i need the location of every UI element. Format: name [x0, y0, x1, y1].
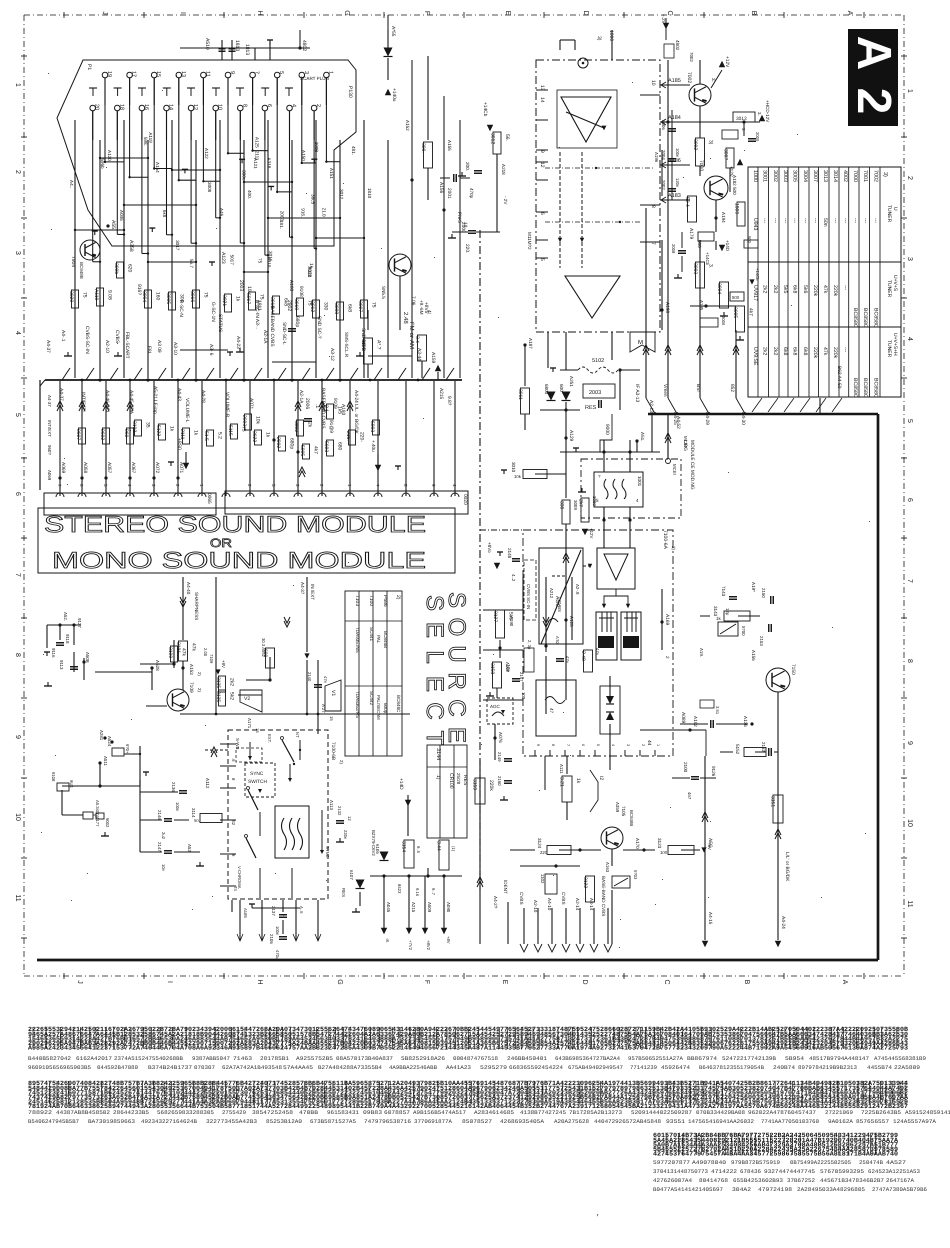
svg-text:A*55: A*55	[390, 26, 396, 37]
svg-text:2150: 2150	[761, 588, 766, 598]
svg-text:0065: 0065	[206, 493, 212, 504]
svg-text:2100: 2100	[683, 762, 688, 773]
svg-text:P130: P130	[347, 86, 353, 98]
svg-text:2153: 2153	[759, 636, 764, 646]
svg-text:A50B: A50B	[85, 652, 90, 663]
svg-text:---: ---	[802, 218, 808, 223]
svg-text:2006: 2006	[304, 398, 310, 409]
svg-text:BA73019859663: BA73019859663	[88, 1118, 135, 1125]
svg-text:600p: 600p	[383, 703, 388, 714]
svg-text:2111: 2111	[254, 151, 259, 161]
svg-text:3: 3	[303, 71, 309, 74]
svg-text:12: 12	[539, 162, 545, 168]
svg-text:+.40u: +.40u	[371, 440, 376, 452]
svg-text:A511: A511	[103, 756, 108, 766]
svg-text:960-: 960-	[123, 429, 129, 439]
svg-text:A170: A170	[635, 838, 640, 849]
svg-text:0004874767518: 0004874767518	[453, 1055, 498, 1062]
svg-text:3122: 3122	[582, 877, 588, 888]
svg-text:A196: A196	[654, 152, 659, 163]
svg-text:---: ---	[762, 218, 768, 223]
svg-text:2): 2)	[339, 760, 344, 764]
svg-text:20: 20	[94, 104, 100, 110]
svg-text:7479796538716: 7479796538716	[364, 1118, 411, 1125]
svg-text:F: F	[423, 980, 430, 984]
svg-text:85253B12A0: 85253B12A0	[266, 1118, 303, 1125]
svg-text:2: 2	[315, 104, 321, 107]
svg-text:220k: 220k	[832, 347, 838, 359]
svg-text:SYNC: SYNC	[250, 771, 264, 777]
svg-text:SHARPNESS: SHARPNESS	[194, 592, 199, 620]
svg-text:2005: 2005	[755, 132, 760, 142]
svg-text:09B83: 09B83	[363, 1109, 382, 1116]
svg-text:(1): (1)	[451, 846, 456, 852]
svg-text:9?0+: 9?0+	[125, 744, 130, 754]
svg-text:2): 2)	[197, 672, 202, 676]
svg-text:85078527: 85078527	[462, 1118, 492, 1125]
svg-text:50 4: 50 4	[684, 197, 690, 207]
svg-text:A3-14: A3-14	[589, 898, 594, 911]
svg-text:1813: 1813	[234, 40, 240, 51]
svg-text:B-SC-IN A3-..: B-SC-IN A3-..	[254, 300, 260, 329]
svg-text:9.08: 9.08	[107, 290, 113, 300]
svg-text:3016: 3016	[189, 291, 195, 302]
svg-text:A182 500: A182 500	[732, 175, 737, 195]
svg-text:A119: A119	[93, 289, 99, 301]
svg-text:9108: 9108	[298, 286, 304, 297]
svg-text:A4-15: A4-15	[708, 912, 713, 925]
svg-text:BB867974: BB867974	[687, 1055, 718, 1062]
svg-text:1000: 1000	[608, 30, 614, 41]
svg-text:B5406247945B5B7: B5406247945B5B7	[28, 1118, 79, 1125]
svg-text:08A570173B40A837: 08A570173B40A837	[336, 1055, 393, 1062]
svg-text:2902: 2902	[286, 300, 292, 311]
svg-text:100n: 100n	[175, 802, 180, 812]
svg-text:680: 680	[337, 442, 343, 451]
svg-text:2u2: 2u2	[161, 832, 166, 840]
svg-text:47n: 47n	[323, 676, 328, 684]
svg-text:44387AB8B458502: 44387AB8B458502	[56, 1109, 110, 1116]
svg-text:4n7: 4n7	[687, 792, 692, 800]
svg-text:U+V+S+H: U+V+S+H	[892, 333, 898, 356]
svg-text:+12V: +12V	[724, 56, 730, 68]
svg-text:600: 600	[559, 384, 564, 392]
svg-text:2.48: 2.48	[402, 312, 409, 324]
svg-text:957B50652551A27A: 957B50652551A27A	[628, 1055, 684, 1062]
svg-text:UV917: UV917	[752, 285, 758, 301]
svg-text:STEREO SOUND MODULE: STEREO SOUND MODULE	[44, 511, 426, 537]
svg-text:A4..: A4..	[69, 180, 74, 188]
svg-text:2003: 2003	[279, 211, 284, 222]
svg-text:A3-10: A3-10	[172, 342, 178, 355]
svg-text:2: 2	[847, 88, 900, 115]
svg-text:2): 2)	[671, 546, 676, 551]
svg-text:5603: 5603	[323, 441, 329, 452]
svg-text:A2-13: A2-13	[648, 400, 654, 413]
svg-text:A215: A215	[438, 388, 444, 400]
svg-text:35.: 35.	[145, 422, 151, 429]
svg-text:A4-23: A4-23	[235, 336, 241, 349]
svg-text:3004: 3004	[802, 170, 808, 182]
svg-text:47k: 47k	[181, 648, 187, 657]
svg-text:A185: A185	[668, 78, 681, 84]
svg-text:A510: A510	[204, 38, 210, 50]
svg-text:A338: A338	[307, 267, 312, 278]
svg-text:10: 10	[217, 104, 223, 110]
svg-text:5295279: 5295279	[480, 1064, 507, 1071]
svg-text:6k8: 6k8	[802, 347, 808, 355]
svg-text:A076: A076	[498, 732, 503, 743]
svg-text:7150: 7150	[790, 664, 796, 675]
svg-text:A180: A180	[340, 404, 346, 416]
svg-text:A20A275628: A20A275628	[554, 1118, 589, 1125]
svg-text:7741AA77050103760: 7741AA77050103760	[761, 1118, 820, 1125]
svg-text:L/BG: L/BG	[682, 440, 688, 451]
svg-text:3005: 3005	[732, 307, 738, 318]
svg-text:5.2: 5.2	[217, 432, 223, 439]
svg-text:---: ---	[772, 218, 778, 223]
svg-text:9116: 9116	[51, 648, 56, 658]
svg-text:2003: 2003	[589, 390, 601, 396]
svg-text:3012: 3012	[490, 133, 496, 144]
svg-text:7109: 7109	[209, 654, 214, 664]
svg-text:B440B5827042: B440B5827042	[28, 1055, 71, 1062]
svg-text:4802: 4802	[301, 40, 307, 51]
svg-text:220-: 220-	[359, 432, 365, 442]
svg-text:A156: A156	[438, 182, 444, 194]
svg-text:U: U	[892, 207, 898, 211]
svg-text:A281: A281	[99, 730, 104, 741]
svg-text:9: 9	[539, 150, 545, 153]
svg-text:A4-10: A4-10	[547, 898, 552, 911]
svg-text:620: 620	[127, 264, 133, 273]
svg-text:E: E	[501, 980, 508, 985]
svg-text:A125: A125	[254, 137, 259, 148]
svg-text:300?: 300?	[723, 149, 729, 160]
svg-text:6: 6	[14, 492, 21, 496]
svg-text:100n: 100n	[275, 926, 280, 936]
svg-text:6k8: 6k8	[162, 210, 167, 218]
svg-text:9108: 9108	[51, 772, 56, 782]
svg-text:I: I	[179, 12, 186, 14]
svg-text:2k2: 2k2	[762, 285, 768, 293]
svg-text:V1: V1	[330, 690, 336, 696]
svg-text:8: 8	[551, 744, 555, 746]
svg-text:37B67252: 37B67252	[787, 1177, 815, 1184]
svg-text:857656557: 857656557	[856, 1118, 889, 1125]
svg-text:50n: 50n	[822, 218, 828, 227]
svg-text:5682659833288305: 5682659833288305	[157, 1109, 214, 1116]
svg-text:L/L' or BG/DK: L/L' or BG/DK	[784, 852, 790, 882]
svg-text:A*.?: A*.?	[376, 340, 382, 350]
svg-text:EXT.: EXT.	[267, 734, 272, 743]
svg-text:5017: 5017	[245, 293, 251, 304]
svg-text:9U4: 9U4	[69, 780, 74, 788]
svg-text:4: 4	[611, 744, 615, 746]
svg-text:CVBS-SC-IN: CVBS-SC-IN	[84, 326, 90, 354]
svg-text:440472926572AB45848: 440472926572AB45848	[594, 1118, 661, 1125]
svg-text:5: 5	[596, 744, 600, 746]
svg-text:21.0: 21.0	[322, 208, 327, 217]
svg-text:A3-44: A3-44	[416, 348, 422, 361]
svg-text:220: 220	[540, 850, 548, 855]
svg-text:1): 1)	[435, 775, 441, 780]
svg-text:10k: 10k	[255, 416, 261, 425]
svg-text:5905: 5905	[299, 445, 305, 456]
svg-text:BASE-BAND CVBS: BASE-BAND CVBS	[601, 876, 606, 916]
svg-text:3019: 3019	[293, 299, 299, 310]
svg-text:9: 9	[14, 735, 21, 739]
svg-text:4002: 4002	[842, 170, 848, 182]
svg-text:3008: 3008	[207, 182, 212, 193]
svg-text:SND SC-?: SND SC-?	[316, 316, 322, 339]
svg-text:51.5: 51.5	[203, 431, 209, 441]
svg-text:852: 852	[729, 384, 735, 392]
svg-text:5: 5	[14, 413, 21, 417]
svg-text:A509: A509	[427, 902, 432, 913]
svg-text:CVBS: CVBS	[114, 330, 120, 343]
svg-text:CR100: CR100	[448, 773, 454, 789]
svg-text:---: ---	[812, 218, 818, 223]
svg-text:A154: A154	[155, 162, 160, 173]
svg-text:+140u: +140u	[391, 88, 397, 102]
svg-text:VOLUME-R: VOLUME-R	[224, 392, 230, 418]
svg-text:47k: 47k	[822, 347, 828, 356]
svg-text:5017: 5017	[229, 255, 234, 266]
svg-text:3011: 3011	[517, 389, 523, 400]
svg-text:300.: 300.	[420, 143, 426, 153]
svg-text:6: 6	[539, 212, 545, 215]
svg-text:A152: A152	[405, 120, 410, 131]
svg-text:36c5: 36c5	[310, 194, 315, 204]
svg-text:6k8: 6k8	[792, 347, 798, 355]
svg-text:3001: 3001	[762, 170, 768, 182]
svg-text:SWITCH: SWITCH	[248, 779, 267, 785]
svg-text:3.51: 3.51	[715, 706, 720, 715]
svg-text:9.16: 9.16	[415, 888, 420, 897]
svg-text:A49078040: A49078040	[692, 1159, 727, 1166]
svg-text:10k: 10k	[514, 474, 522, 479]
svg-text:181.: 181.	[279, 220, 284, 229]
svg-text:NT: NT	[295, 732, 300, 738]
svg-text:50.: 50.	[194, 818, 200, 823]
svg-text:A089: A089	[680, 712, 686, 724]
svg-text:INT/EXT!: INT/EXT!	[80, 392, 86, 412]
svg-text:J: J	[76, 980, 83, 984]
svg-text:7002: 7002	[689, 52, 694, 62]
svg-text:A194: A194	[721, 212, 726, 223]
svg-text:5152: 5152	[735, 744, 740, 755]
svg-text:- 2V: - 2V	[503, 196, 508, 205]
svg-text:3.: 3.	[757, 112, 762, 116]
svg-text:56.: 56.	[504, 134, 510, 141]
svg-text:281785B1: 281785B1	[260, 1055, 290, 1062]
svg-text:BC858C: BC858C	[862, 378, 868, 398]
svg-text:75: 75	[259, 294, 265, 300]
svg-text:BC858C: BC858C	[862, 308, 868, 328]
svg-text:4: 4	[291, 104, 297, 107]
svg-text:124A5557A97A: 124A5557A97A	[893, 1118, 937, 1125]
svg-text:TDA8362/NS: TDA8362/NS	[355, 691, 360, 718]
svg-text:576705993295: 576705993295	[820, 1168, 864, 1175]
svg-text:AA41A23: AA41A23	[446, 1064, 471, 1071]
svg-text:75: 75	[82, 292, 88, 298]
svg-text:0B75499A2225502505: 0B75499A2225502505	[790, 1159, 851, 1166]
svg-text:220k: 220k	[812, 285, 818, 297]
svg-text:3021: 3021	[221, 295, 227, 306]
svg-text:3181: 3181	[175, 642, 181, 653]
svg-text:BC858C: BC858C	[852, 378, 858, 398]
svg-text:A51.: A51.	[640, 432, 645, 441]
svg-text:+14Cb: +14Cb	[755, 268, 760, 281]
svg-text:044592B47080: 044592B47080	[97, 1064, 139, 1071]
svg-text:SC442: SC442	[369, 691, 374, 705]
svg-text:8979784219B9B2313: 8979784219B9B2313	[798, 1064, 857, 1071]
svg-text:IN /EXT: IN /EXT	[310, 584, 315, 600]
svg-text:3017: 3017	[175, 240, 180, 251]
svg-text:BC848B: BC848B	[629, 810, 634, 826]
svg-text:7100-6B: 7100-6B	[330, 742, 336, 760]
svg-text:3012: 3012	[309, 301, 315, 312]
svg-text:93551: 93551	[666, 1118, 686, 1125]
svg-text:Vmen: Vmen	[662, 384, 668, 397]
svg-text:MODULE CE MOD.NG: MODULE CE MOD.NG	[689, 440, 695, 490]
svg-text:A171: A171	[247, 718, 252, 729]
svg-text:A3 09: A3 09	[156, 340, 162, 353]
svg-text:A169: A169	[664, 614, 670, 626]
svg-text:5977207877: 5977207877	[653, 1159, 690, 1166]
svg-text:220k: 220k	[832, 285, 838, 297]
svg-text:7143: 7143	[721, 586, 726, 597]
svg-text:B64637812355179054B: B64637812355179054B	[699, 1064, 765, 1071]
svg-text:3003: 3003	[692, 263, 698, 274]
svg-text:U+V+S: U+V+S	[892, 275, 898, 292]
svg-text:A183: A183	[668, 193, 681, 199]
svg-text:1000: 1000	[752, 170, 758, 182]
svg-text:CVBS: CVBS	[561, 892, 566, 905]
svg-text:2: 2	[14, 170, 21, 174]
svg-text:A9B156B5474A517: A9B156B5474A517	[413, 1109, 466, 1116]
svg-text:---: ---	[862, 218, 868, 223]
svg-text:A045: A045	[386, 902, 391, 913]
svg-text:6162A42017: 6162A42017	[76, 1055, 112, 1062]
svg-text:U943: U943	[752, 218, 758, 231]
svg-text:5k5: 5k5	[782, 285, 788, 293]
svg-text:27221069: 27221069	[825, 1109, 853, 1116]
svg-text:788922: 788922	[28, 1109, 52, 1116]
svg-text:3014: 3014	[832, 170, 838, 182]
svg-text:80414768: 80414768	[699, 1177, 728, 1184]
svg-text:2: 2	[665, 656, 670, 659]
svg-text:5122: 5122	[155, 425, 161, 436]
svg-text:445671B3478346B2B7: 445671B3478346B2B7	[820, 1177, 884, 1184]
svg-text:8423: 8423	[397, 884, 402, 894]
svg-text:492343227164624B: 492343227164624B	[141, 1118, 198, 1125]
svg-text:6800: 6800	[544, 384, 549, 395]
svg-text:M11M?2: M11M?2	[527, 232, 532, 250]
svg-text:CVBS: CVBS	[519, 892, 524, 905]
svg-text:1813: 1813	[244, 44, 250, 55]
svg-text:9: 9	[229, 71, 235, 74]
svg-text:3013: 3013	[822, 170, 828, 182]
svg-text:A122: A122	[204, 148, 209, 159]
svg-text:2137: 2137	[271, 906, 276, 916]
svg-text:A187: A187	[528, 338, 533, 349]
svg-text:5k2: 5k2	[229, 692, 235, 700]
svg-text:STATUS: STATUS	[217, 314, 223, 332]
svg-text:596b: 596b	[100, 158, 105, 169]
svg-text:12: 12	[192, 104, 198, 110]
svg-text:1k: 1k	[575, 778, 581, 784]
svg-text:B27A484288A73355B4: B27A484288A73355B4	[318, 1064, 383, 1071]
svg-text:6k8: 6k8	[347, 304, 353, 312]
svg-text:A59152485914109: A59152485914109	[905, 1109, 950, 1116]
svg-text:7: 7	[566, 744, 570, 746]
svg-text:2.48: 2.48	[580, 651, 586, 661]
svg-text:5: 5	[278, 71, 284, 74]
svg-text:B: B	[750, 11, 757, 16]
svg-text:+8Vo: +8Vo	[487, 542, 492, 553]
svg-text:RES: RES	[462, 775, 468, 786]
svg-text:---: ---	[842, 285, 848, 290]
svg-text:9109: 9109	[332, 398, 338, 409]
svg-text:BC948B: BC948B	[79, 262, 84, 279]
svg-text:5B954: 5B954	[785, 1055, 805, 1062]
svg-text:678436: 678436	[740, 1168, 761, 1175]
svg-text:7100-6A: 7100-6A	[662, 530, 668, 550]
svg-text:11: 11	[906, 900, 913, 907]
svg-text:13: 13	[180, 71, 186, 77]
svg-text:3006: 3006	[721, 316, 726, 326]
svg-text:7: 7	[650, 242, 656, 245]
svg-text:3127: 3127	[492, 611, 498, 622]
svg-text:CVBS SC-IN: CVBS SC-IN	[526, 584, 531, 609]
svg-text:6107: 6107	[349, 870, 354, 880]
svg-text:A179: A179	[688, 228, 694, 240]
svg-text:3158: 3158	[489, 663, 495, 674]
svg-text:A2-1A: A2-1A	[262, 330, 268, 344]
svg-text:680p: 680p	[294, 316, 300, 327]
svg-text:4..2: 4..2	[511, 574, 516, 582]
svg-text:A2-14: A2-14	[575, 898, 580, 911]
svg-text:7904: 7904	[70, 256, 76, 267]
svg-text:3: 3	[906, 257, 913, 261]
svg-text:UV9:SE: UV9:SE	[752, 347, 758, 366]
svg-text:A057: A057	[106, 462, 112, 474]
svg-text:6106: 6106	[375, 844, 380, 854]
svg-text:481.: 481.	[351, 146, 356, 155]
svg-text:TDA935./NS: TDA935./NS	[355, 627, 360, 653]
svg-text:A: A	[841, 980, 848, 985]
svg-text:A4-37: A4-37	[300, 582, 305, 595]
svg-text:14: 14	[539, 97, 545, 103]
svg-text:3010: 3010	[511, 462, 516, 473]
svg-text:A123: A123	[220, 252, 226, 264]
svg-text:500: 500	[732, 295, 740, 300]
svg-text:+8V: +8V	[221, 660, 226, 668]
svg-text:A3-12: A3-12	[329, 348, 335, 361]
svg-text:7103: 7103	[354, 595, 360, 606]
svg-text:S2: S2	[231, 820, 236, 826]
svg-text:3704131448750773: 3704131448750773	[653, 1168, 708, 1175]
svg-text:A195: A195	[699, 300, 704, 311]
svg-text:-8.: -8.	[385, 938, 390, 943]
svg-text:2902: 2902	[275, 437, 281, 448]
svg-text:A4-37: A4-37	[47, 395, 52, 407]
svg-text:P1: P1	[86, 64, 92, 70]
svg-text:3005: 3005	[792, 170, 798, 182]
svg-text:9: 9	[906, 741, 913, 745]
